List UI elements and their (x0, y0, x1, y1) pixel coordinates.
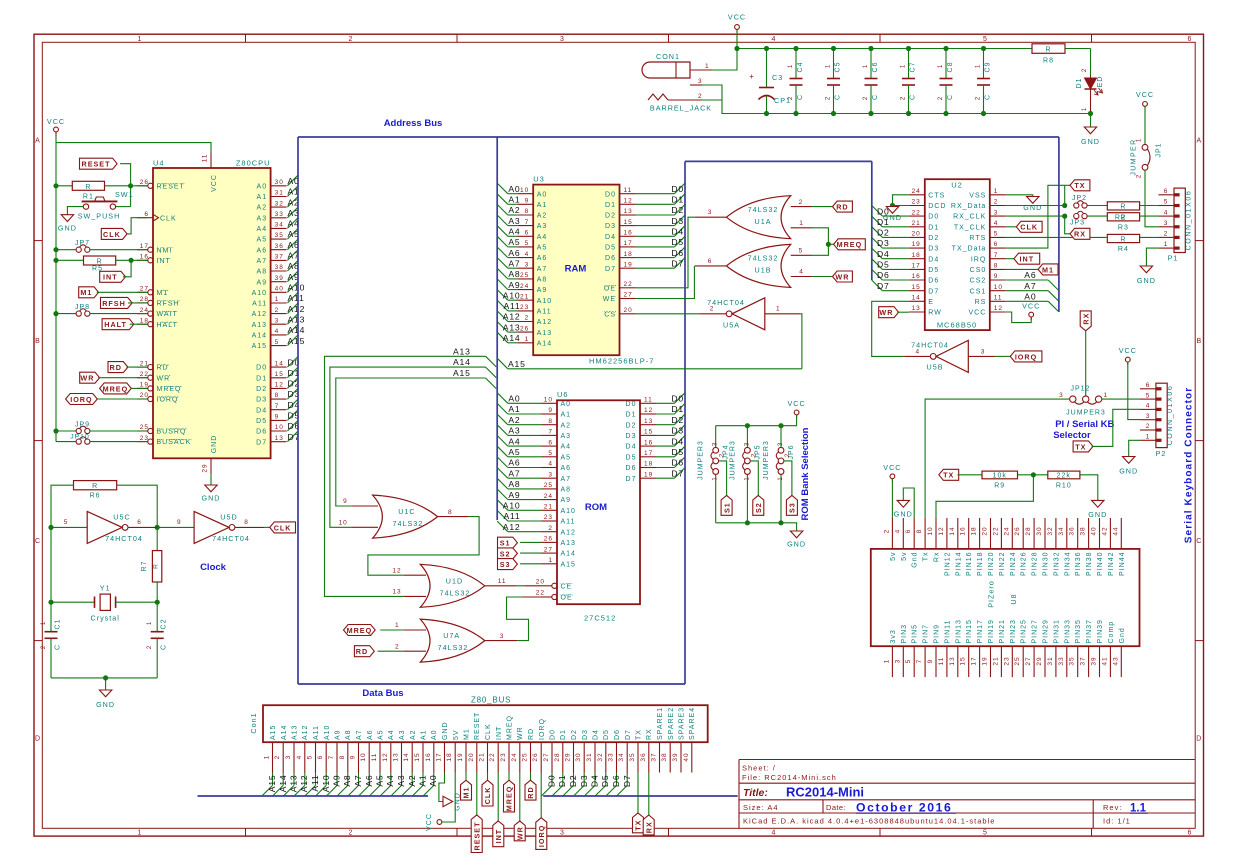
svg-text:D3: D3 (579, 775, 589, 788)
pin 23 BUSACK of U4 (137, 441, 148, 443)
svg-text:19: 19 (912, 241, 921, 248)
svg-text:8: 8 (994, 263, 999, 270)
svg-text:29: 29 (202, 463, 209, 472)
svg-text:3: 3 (560, 36, 565, 43)
svg-text:5: 5 (525, 240, 530, 247)
svg-text:D0: D0 (671, 394, 684, 404)
svg-text:D4: D4 (626, 444, 637, 451)
wire INT label to pin16 net (123, 260, 131, 277)
pin 27 PIN27 of U8 (1033, 646, 1035, 677)
svg-text:IORQ: IORQ (537, 825, 546, 847)
svg-text:D4: D4 (671, 436, 684, 446)
pin 1 3v3 of U8 (891, 646, 893, 677)
svg-text:JP8: JP8 (75, 304, 90, 311)
wire U2 VSS to ground (1006, 195, 1033, 197)
svg-text:A7: A7 (561, 476, 572, 483)
svg-text:39: 39 (1091, 656, 1098, 665)
svg-text:31: 31 (1047, 656, 1054, 665)
svg-text:JP9: JP9 (75, 422, 90, 429)
svg-text:74LS32: 74LS32 (748, 254, 779, 263)
svg-text:TX: TX (1075, 442, 1086, 451)
jumper JP4 JUMPER3 (715, 426, 717, 448)
svg-text:10: 10 (544, 397, 553, 404)
pin 5 A11 of Con1 (315, 742, 317, 772)
pin 17 PIN17 of U8 (979, 646, 981, 677)
svg-text:CON1: CON1 (656, 52, 680, 61)
or-gate U1D 74LS32 (404, 574, 426, 576)
pin 40 PIN40 of U8 (1099, 518, 1101, 549)
pin 17 NMI of U4 (137, 249, 148, 251)
svg-text:Data Bus: Data Bus (362, 688, 403, 699)
svg-text:D3: D3 (626, 433, 637, 440)
svg-text:35: 35 (1069, 656, 1076, 665)
pin 20 D2 of U2 (909, 236, 925, 238)
svg-text:PIN23: PIN23 (1010, 619, 1017, 643)
svg-text:C5: C5 (835, 62, 842, 73)
svg-text:26: 26 (520, 325, 529, 332)
svg-text:A2: A2 (508, 205, 520, 215)
ground below P2 (1123, 457, 1135, 464)
svg-text:PIN20: PIN20 (988, 552, 995, 576)
pin 12 PIN12 of U8 (946, 518, 948, 549)
wire VCC to P2 pin3 (1128, 362, 1140, 420)
svg-text:36: 36 (640, 752, 647, 761)
svg-text:8: 8 (339, 755, 346, 760)
global label WR at U1B (812, 276, 833, 278)
pin 10 Rx of U8 (935, 518, 937, 549)
svg-text:Clock: Clock (200, 562, 227, 573)
svg-text:D7: D7 (671, 258, 684, 268)
svg-text:9: 9 (548, 407, 553, 414)
svg-text:File: RC2014-Mini.sch: File: RC2014-Mini.sch (742, 773, 837, 782)
pin 9 PIN9 of U8 (935, 646, 937, 677)
svg-text:GND: GND (1088, 510, 1107, 519)
svg-text:A11: A11 (561, 519, 576, 526)
svg-text:4: 4 (894, 529, 901, 534)
wire U1C output to U1D input 12 (368, 517, 479, 576)
svg-text:A8: A8 (561, 487, 572, 494)
svg-text:20: 20 (140, 392, 149, 399)
pin 6 TX_Data of U2 (990, 247, 1006, 249)
LED D1 (1090, 49, 1092, 76)
svg-text:13: 13 (644, 418, 653, 425)
svg-text:OE: OE (561, 595, 573, 602)
svg-text:A12: A12 (503, 522, 521, 532)
svg-text:GND: GND (58, 224, 77, 233)
svg-text:30: 30 (1036, 526, 1043, 535)
svg-text:18: 18 (140, 317, 149, 324)
svg-text:5V: 5V (453, 729, 460, 740)
global label MREQ at U7A (344, 625, 376, 636)
svg-text:M1: M1 (80, 288, 92, 297)
pin 9 A7 of Con1 (358, 742, 360, 772)
svg-text:A8: A8 (257, 269, 268, 276)
svg-text:D4: D4 (877, 249, 890, 259)
svg-text:74LS32: 74LS32 (438, 643, 469, 652)
svg-text:Rev:: Rev: (1103, 803, 1122, 812)
svg-text:10: 10 (927, 526, 934, 535)
svg-text:25: 25 (140, 424, 149, 431)
svg-text:4: 4 (994, 220, 999, 227)
svg-text:9: 9 (994, 273, 999, 280)
svg-text:D1: D1 (557, 775, 567, 788)
wire JP12 pin3 to PiZero Tx (925, 399, 1070, 518)
svg-text:VCC: VCC (883, 463, 901, 472)
or-gate U1A 74LS32 (695, 216, 727, 218)
svg-text:27: 27 (544, 546, 553, 553)
svg-text:32: 32 (1047, 526, 1054, 535)
svg-text:MREQ: MREQ (507, 715, 514, 740)
bus address bus rectangle (298, 136, 1059, 138)
svg-text:11: 11 (498, 578, 507, 585)
svg-text:PIN33: PIN33 (1064, 619, 1071, 643)
svg-text:1: 1 (548, 557, 553, 564)
svg-text:32: 32 (275, 200, 284, 207)
svg-text:D: D (1196, 736, 1202, 743)
svg-text:24: 24 (1003, 526, 1010, 535)
svg-text:33: 33 (1058, 656, 1065, 665)
svg-text:RD: RD (110, 363, 122, 372)
svg-text:October 2016: October 2016 (856, 801, 952, 815)
svg-text:U6: U6 (557, 390, 569, 399)
jumper JP7 (53, 247, 58, 252)
svg-text:16: 16 (912, 273, 921, 280)
svg-text:A15: A15 (267, 775, 277, 793)
svg-text:A14: A14 (278, 775, 288, 793)
svg-text:D3: D3 (605, 223, 616, 230)
pin 27 D0 of Con1 (551, 742, 553, 772)
svg-text:A13: A13 (537, 330, 552, 337)
pin 7 A9 of Con1 (336, 742, 338, 772)
svg-text:27: 27 (624, 292, 633, 299)
svg-text:R6: R6 (90, 493, 101, 500)
svg-text:26: 26 (544, 536, 553, 543)
svg-text:A4: A4 (508, 436, 520, 446)
svg-text:U1C: U1C (398, 507, 415, 516)
svg-text:16: 16 (140, 254, 149, 261)
svg-text:A14: A14 (281, 725, 288, 740)
global label CLK at U5D (264, 526, 270, 528)
svg-text:A4: A4 (385, 775, 395, 787)
svg-text:PIN19: PIN19 (988, 619, 995, 643)
pin 3 A13 of Con1 (293, 742, 295, 772)
pin 26 IORQ of Con1 (540, 742, 542, 772)
global label CLK at U2 (1006, 226, 1017, 228)
svg-text:3: 3 (744, 442, 750, 446)
svg-text:20: 20 (536, 579, 545, 586)
svg-text:D4: D4 (590, 775, 600, 788)
svg-text:6: 6 (317, 755, 324, 760)
svg-text:29: 29 (1036, 656, 1043, 665)
svg-text:D7: D7 (625, 729, 632, 740)
svg-text:11: 11 (624, 187, 633, 194)
svg-text:A9: A9 (561, 497, 572, 504)
ground at U8 Gnd (897, 500, 909, 507)
svg-text:43: 43 (1112, 656, 1119, 665)
pin 22 OE of U3 (620, 287, 636, 289)
svg-text:12: 12 (938, 526, 945, 535)
svg-text:WR: WR (517, 726, 524, 740)
svg-text:34: 34 (618, 752, 625, 761)
svg-text:D5: D5 (605, 245, 616, 252)
svg-text:2: 2 (525, 315, 530, 322)
pin 11 A5 of Con1 (379, 742, 381, 772)
wire CON1 pin2 pin3 to GND rail (702, 85, 737, 114)
svg-text:A12: A12 (503, 312, 521, 322)
svg-text:S2: S2 (500, 549, 511, 558)
svg-text:8: 8 (244, 519, 249, 526)
svg-text:8: 8 (916, 529, 923, 534)
pin 32 PIN32 of U8 (1055, 518, 1057, 549)
global label RESET (80, 158, 118, 169)
svg-text:10: 10 (339, 520, 348, 527)
svg-text:9: 9 (350, 755, 357, 760)
svg-text:D0: D0 (626, 401, 637, 408)
svg-text:2: 2 (275, 307, 280, 314)
svg-text:C2: C2 (161, 619, 168, 630)
svg-text:CONN_01X06: CONN_01X06 (1185, 190, 1192, 251)
pin 18 PIN18 of U8 (979, 518, 981, 549)
svg-text:A2: A2 (257, 205, 268, 212)
bus RAM/ROM address vertical (496, 137, 498, 520)
pin 14 PIN14 of U8 (957, 518, 959, 549)
svg-text:A2: A2 (407, 775, 417, 787)
svg-text:A11: A11 (288, 293, 305, 303)
svg-text:6: 6 (525, 230, 530, 237)
pin 26 PIN26 of U8 (1022, 518, 1024, 549)
svg-text:A6: A6 (508, 248, 520, 258)
svg-text:7: 7 (916, 659, 923, 664)
inverter U5B 74HCT04 (936, 340, 968, 372)
svg-text:10: 10 (520, 187, 529, 194)
pin 5 PIN5 of U8 (913, 646, 915, 677)
svg-text:Comp: Comp (1108, 621, 1115, 644)
svg-text:A7: A7 (1024, 281, 1036, 291)
svg-text:D6: D6 (611, 775, 621, 788)
svg-text:A4: A4 (561, 444, 572, 451)
pin 6 CLK of U4 (137, 217, 153, 219)
global label M1 at U2 (1006, 268, 1038, 270)
svg-text:40: 40 (275, 286, 284, 293)
svg-text:A10: A10 (537, 298, 552, 305)
net labels D0-D7 at U4 with bus entries (287, 357, 298, 368)
svg-text:P2: P2 (1156, 449, 1167, 458)
svg-text:PIN28: PIN28 (1032, 552, 1039, 576)
svg-text:U7A: U7A (443, 631, 460, 640)
svg-text:12: 12 (392, 567, 401, 574)
resistor R8 (1032, 44, 1065, 54)
svg-text:VCC: VCC (426, 813, 433, 831)
svg-text:17: 17 (436, 752, 443, 761)
svg-text:RD: RD (356, 647, 368, 656)
bus data link to U2 (685, 160, 872, 162)
pin 30 PIN30 of U8 (1044, 518, 1046, 549)
svg-text:A6: A6 (364, 775, 374, 787)
svg-text:A3: A3 (561, 433, 572, 440)
pin 18 D4 of U2 (909, 258, 925, 260)
svg-text:RAM: RAM (565, 264, 587, 275)
pin 27 M1 of U4 (137, 291, 148, 293)
svg-text:Z80CPU: Z80CPU (236, 158, 271, 167)
svg-text:B: B (35, 338, 41, 345)
pin 39 PIN39 of U8 (1099, 646, 1101, 677)
svg-text:7: 7 (994, 252, 999, 259)
svg-text:JP1: JP1 (1156, 142, 1163, 157)
pin 44 PIN44 of U8 (1120, 518, 1122, 549)
svg-text:30: 30 (275, 179, 284, 186)
svg-text:14: 14 (949, 526, 956, 535)
pin 11 VCC of U4 (210, 152, 212, 168)
svg-text:A0: A0 (508, 184, 520, 194)
pin 36 PIN36 of U8 (1077, 518, 1079, 549)
global label RD at U4 (108, 362, 128, 373)
svg-text:PIN13: PIN13 (955, 619, 962, 643)
svg-text:D7: D7 (622, 775, 632, 788)
svg-text:5: 5 (799, 248, 804, 255)
svg-text:3: 3 (713, 442, 719, 446)
pin 28 PIN28 of U8 (1033, 518, 1035, 549)
pin 11 RS of U2 (990, 300, 1006, 302)
pin 4 5v of U8 (902, 518, 904, 549)
ground sideways at Con1 (443, 796, 453, 806)
svg-text:PIN29: PIN29 (1043, 619, 1050, 643)
pin 4 TX_CLK of U2 (990, 226, 1006, 228)
global label MREQ at U4 (100, 383, 132, 394)
svg-text:13: 13 (949, 656, 956, 665)
wire GND rail top (737, 113, 1091, 115)
svg-text:A10: A10 (288, 283, 306, 293)
svg-text:1: 1 (901, 64, 907, 68)
svg-text:CLK: CLK (1020, 223, 1038, 232)
svg-text:RD: RD (157, 365, 169, 372)
svg-text:U4: U4 (153, 158, 165, 167)
svg-text:R: R (1045, 46, 1051, 53)
wire R6 left to U5C input (51, 485, 74, 527)
pin 13 PIN13 of U8 (957, 646, 959, 677)
svg-text:D7: D7 (928, 288, 939, 295)
svg-text:1: 1 (976, 64, 982, 68)
ground at R10 (1092, 500, 1104, 507)
svg-text:1: 1 (525, 336, 530, 343)
svg-text:RX_CLK: RX_CLK (953, 214, 986, 221)
svg-text:28: 28 (554, 752, 561, 761)
svg-text:15: 15 (275, 371, 284, 378)
svg-text:A13: A13 (292, 725, 299, 740)
svg-text:PIN39: PIN39 (1097, 619, 1104, 643)
svg-text:A8: A8 (342, 775, 352, 787)
svg-text:CLK: CLK (160, 215, 177, 222)
svg-text:27: 27 (140, 286, 149, 293)
svg-text:JP2: JP2 (1072, 195, 1087, 202)
svg-text:Crystal: Crystal (91, 614, 120, 623)
svg-text:M1: M1 (462, 787, 471, 799)
svg-text:1: 1 (275, 296, 280, 303)
pin 40 SPARE4 of Con1 (691, 742, 693, 772)
svg-text:2: 2 (785, 453, 791, 457)
pin 26 RESET of U4 (137, 185, 148, 187)
resistor R4 (1107, 234, 1139, 242)
svg-text:22: 22 (624, 281, 633, 288)
vertical global label RX at Con1 (648, 773, 650, 816)
svg-text:32: 32 (597, 752, 604, 761)
svg-text:28: 28 (1025, 526, 1032, 535)
pin 1 A15 of Con1 (272, 742, 274, 772)
global label S3 at JP6 (784, 461, 792, 496)
svg-text:3: 3 (981, 348, 986, 355)
svg-text:33: 33 (275, 211, 284, 218)
wire JP3 to RX label (1062, 214, 1067, 219)
svg-text:Selector: Selector (1053, 430, 1091, 441)
svg-text:SW1: SW1 (115, 190, 134, 199)
svg-text:13: 13 (275, 435, 284, 442)
svg-text:D3: D3 (582, 729, 589, 740)
svg-text:D3: D3 (671, 426, 684, 436)
or-gate U1B 74LS32 (695, 265, 727, 267)
vertical global label M1 at Con1 (461, 780, 472, 800)
svg-text:A3: A3 (537, 223, 548, 230)
svg-text:A0: A0 (428, 775, 438, 787)
svg-text:C4: C4 (797, 62, 804, 73)
pin 18 HALT of U4 (137, 323, 148, 325)
svg-text:A6: A6 (1024, 270, 1036, 280)
svg-text:VCC: VCC (1136, 90, 1154, 99)
svg-text:21: 21 (992, 656, 999, 665)
svg-text:3: 3 (275, 317, 280, 324)
svg-text:15: 15 (912, 284, 921, 291)
inverter U5D 74HCT04 (194, 511, 229, 543)
svg-text:CE: CE (561, 583, 573, 590)
svg-text:5v: 5v (890, 552, 897, 561)
svg-text:9: 9 (177, 519, 182, 526)
svg-text:RX: RX (645, 821, 654, 833)
svg-text:D0: D0 (256, 365, 267, 372)
svg-text:38: 38 (275, 264, 284, 271)
svg-text:RX: RX (1074, 230, 1086, 239)
svg-text:RESET: RESET (157, 183, 185, 190)
svg-text:JP10: JP10 (70, 434, 90, 441)
svg-text:PIN27: PIN27 (1032, 619, 1039, 643)
svg-text:S3: S3 (788, 502, 797, 513)
svg-text:8: 8 (275, 392, 280, 399)
svg-text:3: 3 (1146, 413, 1151, 420)
pin 34 PIN34 of U8 (1066, 518, 1068, 549)
vertical global label TX at Con1 (637, 773, 639, 813)
svg-text:A3: A3 (257, 215, 268, 222)
wire R6 right to U5C output (117, 485, 158, 527)
svg-text:A5: A5 (375, 775, 385, 787)
pin 37 SPARE1 of Con1 (659, 742, 661, 772)
global label S1 at JP4 (719, 461, 727, 496)
svg-text:A3: A3 (508, 216, 520, 226)
svg-text:D7: D7 (605, 266, 616, 273)
wire SW1 to ground (67, 207, 83, 215)
svg-text:17: 17 (140, 243, 149, 250)
svg-text:VCC: VCC (728, 13, 746, 22)
svg-text:15: 15 (960, 656, 967, 665)
svg-text:Date:: Date: (826, 803, 846, 812)
svg-text:25: 25 (544, 482, 553, 489)
pin 21 CLK of Con1 (487, 742, 489, 772)
wire TX to R9 (957, 474, 982, 476)
svg-text:SPARE1: SPARE1 (657, 707, 664, 740)
svg-text:4: 4 (1146, 403, 1151, 410)
svg-text:HALT: HALT (157, 322, 178, 329)
svg-text:JUMPER3: JUMPER3 (1066, 409, 1106, 416)
pin 15 A1 of Con1 (422, 742, 424, 772)
svg-text:74HCT04: 74HCT04 (212, 534, 250, 543)
wire Con1 GND pin17 (439, 773, 445, 802)
svg-text:A0: A0 (508, 394, 520, 404)
